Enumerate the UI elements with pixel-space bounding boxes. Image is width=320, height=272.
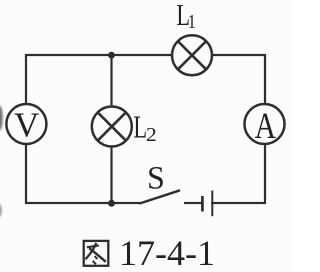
caption: character 图 (drawn glyph) <box>84 241 109 266</box>
scan smudge artifacts on left edge (decorative) <box>0 106 3 218</box>
battery cell (single cell, short thick plate left, long thin plate right) <box>202 191 212 217</box>
svg-text:17-4-1: 17-4-1 <box>119 233 215 272</box>
lamp L1 (circle with X cross, on top wire) <box>172 35 212 75</box>
wire: outer rectangle loop (top/left/right/bottom conductors) <box>26 55 265 203</box>
svg-text:1: 1 <box>188 11 196 33</box>
label L1 <box>176 0 195 32</box>
svg-text:A: A <box>255 106 276 147</box>
ammeter A (circle meter on right wire) <box>245 104 285 147</box>
lamp L2 (circle with X cross, on middle branch) <box>92 107 132 147</box>
label L2 <box>133 108 156 146</box>
junction dot: bottom node (middle branch meets bottom wire) <box>108 200 115 207</box>
svg-text:2: 2 <box>146 123 157 146</box>
switch S (open knife switch, white gap over bottom wire + blade) <box>139 190 184 207</box>
svg-text:S: S <box>147 160 165 197</box>
junction dot: top node (middle branch meets top wire) <box>108 52 115 59</box>
voltmeter V (circle meter on left wire) <box>6 104 46 145</box>
svg-text:V: V <box>14 106 39 145</box>
wire: middle branch vertical (node top junction to bottom junction) <box>110 55 112 203</box>
